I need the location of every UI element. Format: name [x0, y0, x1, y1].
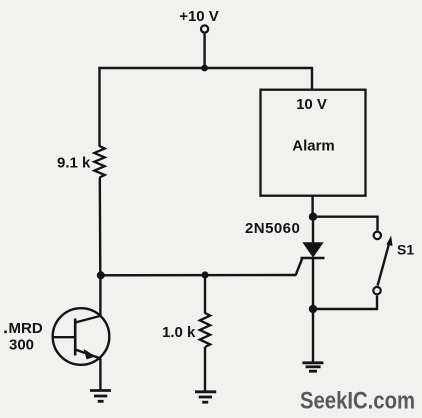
wire alarm box to anode node: [311, 196, 313, 217]
node +10V supply terminal: [179, 8, 219, 33]
junction supply node dot: [201, 65, 208, 72]
junction node A dot: [97, 271, 105, 279]
wire collector lead: [99, 275, 101, 316]
wire top bus: [98, 67, 312, 69]
switch S1 bottom contact: [373, 287, 380, 294]
wire top bus to alarm box: [311, 67, 313, 90]
wire node B to resistor R2: [204, 275, 206, 314]
SCR Q2 2N5060: [296, 243, 325, 275]
wire anode node to SCR: [312, 217, 314, 244]
alarm box U1: [261, 90, 366, 196]
wire mid horizontal (gate wire): [100, 274, 296, 277]
switch S1 top contact: [374, 232, 381, 239]
svg-text:SeekIC.com: SeekIC.com: [300, 388, 415, 415]
ground under transistor: [90, 391, 111, 402]
svg-text:2N5060: 2N5060: [245, 220, 300, 237]
svg-text:1.0 k: 1.0 k: [162, 324, 196, 341]
wire SCR cathode down: [312, 258, 314, 309]
wire switch bottom to cathode node: [313, 295, 377, 309]
label MRD 300: [4, 320, 43, 353]
junction cathode node dot: [309, 305, 317, 313]
wire anode node to switch: [313, 217, 378, 231]
wire resistor R2 to ground: [204, 347, 206, 392]
svg-text:10 V: 10 V: [296, 96, 327, 113]
wire left vertical upper: [98, 67, 100, 147]
junction node B dot: [201, 271, 208, 278]
resistor R2 1.0 k: [162, 313, 210, 347]
wire resistor R1 to node A: [99, 178, 102, 276]
switch S1 blade: [378, 236, 393, 286]
transistor Q1 MRD 300 phototransistor: [53, 308, 110, 365]
svg-text:300: 300: [9, 336, 34, 353]
svg-text:MRD: MRD: [9, 320, 43, 337]
wire supply terminal to top bus: [203, 34, 205, 68]
resistor R1 9.1 k: [57, 146, 105, 178]
wire emitter to ground: [99, 359, 101, 391]
svg-text:9.1 k: 9.1 k: [57, 155, 91, 172]
ground under resistor R2: [195, 392, 216, 402]
junction anode node dot: [309, 213, 317, 221]
svg-text:Alarm: Alarm: [292, 138, 335, 155]
ground under SCR: [302, 363, 323, 371]
svg-text:S1: S1: [397, 241, 414, 257]
wire cathode node to ground: [312, 309, 314, 362]
svg-text:+10 V: +10 V: [179, 8, 219, 25]
